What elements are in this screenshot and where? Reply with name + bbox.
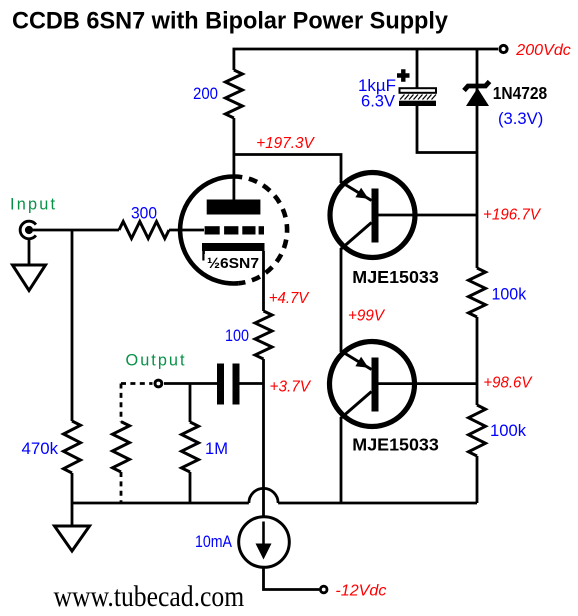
terminal output [155,380,162,387]
svg-text:+99V: +99V [348,308,385,325]
wire right rail [476,49,479,503]
transistor Q1 base bar [372,189,379,243]
wire plate lead [232,118,235,200]
svg-text:MJE15033: MJE15033 [352,267,439,287]
resistor R3 470k [64,421,81,473]
svg-text:300: 300 [131,205,157,223]
ground bottom [55,526,90,551]
svg-text:470k: 470k [22,440,59,458]
transistor Q1 circle [330,173,415,258]
svg-text:1N4728: 1N4728 [493,83,548,103]
label half 6SN7 [205,254,262,270]
input jack center pin [25,226,33,234]
resistor R6 1M [182,422,199,472]
svg-text:+197.3V: +197.3V [256,135,315,152]
wire +197.3V node [234,155,341,184]
terminal -12Vdc [320,586,327,593]
transistor Q2 collector [341,392,372,419]
transistor Q2 base lead [379,382,478,385]
wire cathode lead [262,251,265,311]
current source I1 circle [239,517,290,568]
svg-text:6.3V: 6.3V [361,92,395,110]
svg-text:200Vdc: 200Vdc [515,42,571,59]
ground input [13,265,46,291]
wire grid lead [169,229,204,232]
zener D1 cathode bar [464,82,490,91]
tube V1 cathode left stub [202,251,205,261]
capacitor C2 coupling plates [217,364,224,405]
wire Q1 collector to Q2 [340,248,343,352]
transistor Q1 base lead [379,214,478,217]
wire input to grid resistor [33,229,119,232]
svg-text:+3.7V: +3.7V [270,379,312,396]
resistor R7 100k [469,268,486,317]
svg-text:MJE15033: MJE15033 [352,435,439,455]
transistor Q2 circle [330,342,415,427]
svg-text:+4.7V: +4.7V [269,290,310,307]
resistor R2 300 [119,222,169,239]
zener D1 anode triangle [466,88,489,106]
tube V1 cathode [202,243,265,251]
svg-text:+98.6V: +98.6V [483,375,532,392]
tube V1 envelope dashed arc [234,176,288,283]
capacitor C1 bottom plate [399,101,436,106]
current source I1 arrow [262,522,265,548]
svg-text:½6SN7: ½6SN7 [207,255,259,272]
wire Q2 collector down [340,417,343,503]
svg-text:100k: 100k [490,422,527,440]
wire dashed load bottom lead [120,472,123,503]
wire 470k bottom lead [71,473,74,503]
wire 1M bottom lead [189,472,192,503]
capacitor C1 plus sign [397,69,410,81]
capacitor C1 1kuF wires [417,49,477,153]
svg-text:10mA: 10mA [195,533,232,551]
svg-text:(3.3V): (3.3V) [498,110,543,128]
resistor R8 100k [469,405,486,456]
svg-text:-12Vdc: -12Vdc [335,583,386,600]
transistor Q2 emitter [341,351,372,370]
capacitor C1 top plate [400,88,437,93]
svg-text:1M: 1M [205,440,228,458]
wire ground stub bottom [71,503,74,526]
svg-text:+196.7V: +196.7V [483,207,541,224]
wire output to cap [164,382,217,385]
svg-text:www.tubecad.com: www.tubecad.com [54,580,245,613]
svg-text:100k: 100k [492,286,527,304]
transistor Q2 emitter arrow [355,357,368,368]
resistor R4 100 [255,311,272,359]
capacitor C1 hatched dielectric [400,95,436,100]
terminal 200Vdc [500,45,507,52]
transistor Q1 emitter arrow [355,188,368,199]
wire top rail B+ [234,49,498,70]
wire current source to -12V [264,569,320,590]
svg-text:100: 100 [225,327,249,345]
wire cathode node down [262,359,265,516]
svg-text:200: 200 [193,85,218,103]
transistor Q1 collector [341,223,372,250]
input jack outer [20,221,36,239]
wire input jack ground stub [28,240,31,265]
transistor Q2 base bar [372,358,379,412]
tube V1 plate [207,200,261,215]
wire 1M branch [189,384,192,423]
tube V1 grid [205,226,264,234]
svg-text:CCDB 6SN7 with Bipolar Power S: CCDB 6SN7 with Bipolar Power Supply [12,8,448,35]
wire cap to cathode [240,382,264,385]
resistor R1 200 [225,70,242,118]
tube V1 envelope solid arc [180,177,238,284]
svg-text:Output: Output [126,352,185,370]
resistor R5 load dashed [113,422,130,472]
transistor Q1 emitter [341,182,372,201]
wire dashed output stub [121,384,153,422]
wire bottom rail with hop [72,488,477,503]
wire 470k branch [71,230,74,421]
